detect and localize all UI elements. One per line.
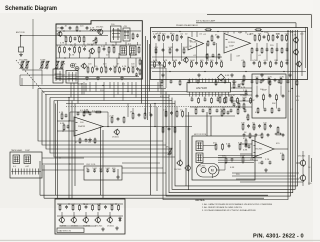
mech labels	[198, 156, 226, 168]
part amp-mid1	[155, 48, 157, 55]
label row part 6	[113, 66, 118, 68]
IF transformer T1	[111, 26, 122, 42]
IF transformer T4	[130, 46, 137, 55]
svg-text:6.8K: 6.8K	[226, 143, 231, 145]
part subamp-14	[287, 80, 290, 84]
potentiometer VR2a VR2b	[40, 60, 50, 70]
part ctl-t4	[274, 78, 277, 82]
svg-text:4.7K: 4.7K	[268, 77, 273, 79]
resistor R22	[119, 66, 121, 73]
svg-text:10K: 10K	[241, 123, 245, 125]
motor belt outline	[197, 164, 220, 178]
label bat-3	[71, 204, 76, 206]
wire amp rail bottom	[152, 71, 306, 73]
capacitor C37	[106, 169, 109, 173]
op-amp U3	[74, 117, 103, 136]
part amp-rm8	[286, 48, 289, 52]
transistor Q17	[94, 217, 100, 224]
tuner top small parts	[61, 26, 89, 33]
svg-text:6.8K: 6.8K	[276, 34, 281, 36]
part amp-rt7	[281, 34, 283, 41]
resistor R33	[207, 40, 209, 46]
part rl2-4	[261, 133, 263, 139]
wire center verticals	[165, 107, 167, 112]
wire interblock verticals	[145, 36, 147, 116]
diode D2	[119, 217, 122, 222]
svg-text:2.2K: 2.2K	[72, 46, 77, 48]
label ctl-t3	[268, 77, 273, 79]
wire right edge pair	[308, 155, 310, 185]
wire opamp inputs	[57, 120, 74, 122]
part subamp-6	[215, 80, 217, 86]
wire antenna feed	[21, 35, 56, 37]
ground amp	[161, 73, 292, 77]
resistor R13	[112, 46, 117, 54]
label bat-5	[84, 204, 89, 206]
svg-text:6.8K: 6.8K	[84, 110, 89, 112]
part icrow2-1	[195, 108, 197, 115]
capacitor C21	[213, 42, 216, 46]
svg-text:VOLUME: VOLUME	[19, 60, 28, 62]
transformer T6	[24, 155, 31, 164]
svg-text:6.8K: 6.8K	[247, 34, 252, 36]
tuner row labels	[61, 64, 135, 66]
transistor Q2	[96, 27, 104, 36]
part amp-t4	[172, 34, 174, 41]
label NOTES	[196, 198, 205, 202]
wire battery top rail	[57, 203, 123, 205]
transistor Q9	[174, 160, 182, 171]
label icrow2-1	[194, 108, 198, 110]
svg-text:6.8K: 6.8K	[230, 167, 235, 169]
transistor Q10	[184, 165, 190, 172]
svg-text:2SC945: 2SC945	[174, 169, 182, 171]
svg-text:MOTOR PCB: MOTOR PCB	[194, 134, 207, 136]
wire amp rail top	[152, 31, 306, 33]
part subamp-12	[269, 80, 271, 86]
capacitor C1	[74, 37, 77, 41]
filter box outline	[84, 166, 122, 180]
capacitor C5	[101, 46, 106, 51]
label amp block	[176, 24, 198, 27]
wire amp verticals	[155, 43, 157, 61]
part ctl-b4	[278, 108, 281, 112]
labels in connector	[13, 166, 30, 168]
capacitor C17	[136, 67, 139, 71]
part amp-t2	[163, 34, 165, 41]
IC U4	[187, 83, 231, 93]
svg-text:33K: 33K	[258, 34, 262, 36]
capacitor C38	[113, 169, 116, 173]
part amp-rm5	[271, 47, 273, 54]
transistor Q7	[295, 61, 301, 68]
wire outer top	[196, 20, 296, 28]
resistor R24	[128, 66, 130, 73]
svg-text:6.8K: 6.8K	[225, 75, 230, 77]
ctl labels	[255, 89, 276, 114]
transistor Q8	[112, 129, 120, 139]
resistor R25	[132, 66, 134, 73]
labels below U5	[250, 159, 270, 165]
label amp-rt4	[267, 34, 270, 36]
labels under IC	[233, 95, 248, 97]
resistor R10	[79, 46, 81, 53]
label amp-rb1	[252, 60, 257, 62]
resistor R79	[92, 204, 94, 211]
svg-text:2SC945: 2SC945	[95, 226, 103, 228]
capacitor C45	[243, 90, 248, 95]
label filter box	[86, 164, 96, 166]
label icrow2-7	[236, 108, 241, 110]
label batQ2	[71, 226, 79, 228]
right column labels	[241, 87, 300, 129]
part subamp-2	[170, 80, 173, 84]
part rl-1	[242, 123, 244, 130]
dashed gang wire	[16, 60, 46, 95]
svg-text:4.7K: 4.7K	[90, 28, 95, 30]
svg-text:AN7108: AN7108	[196, 86, 207, 90]
inductor L1	[90, 28, 100, 32]
part rl2-2	[249, 133, 251, 139]
svg-text:100P: 100P	[78, 84, 83, 86]
block outline: tape mechanism	[192, 136, 255, 180]
resistor R14	[138, 46, 140, 53]
resistor R51	[176, 110, 178, 117]
capacitor C52	[65, 205, 68, 209]
svg-text:2SA733: 2SA733	[83, 225, 91, 228]
part amp-l0	[154, 61, 156, 68]
svg-text:ANT ROD: ANT ROD	[16, 31, 26, 34]
svg-text:P/N. 4301- 2622 - 0: P/N. 4301- 2622 - 0	[253, 234, 304, 240]
svg-text:6.8K: 6.8K	[60, 123, 65, 125]
svg-text:1S1555: 1S1555	[228, 42, 236, 44]
capacitor C47	[261, 161, 264, 165]
svg-text:6.8K: 6.8K	[173, 60, 178, 62]
part subamp-10	[251, 80, 254, 84]
block outline: amplifier section	[151, 28, 308, 80]
resistors R80-R82	[218, 96, 233, 104]
resistor R40	[83, 110, 90, 113]
bus left drop wires	[55, 104, 57, 196]
ground U3	[88, 138, 92, 142]
capacitor C35	[93, 169, 96, 173]
svg-text:33K: 33K	[285, 60, 289, 62]
part amp-t5	[176, 34, 178, 41]
svg-text:10K: 10K	[110, 204, 114, 206]
resistor R1	[64, 35, 67, 43]
transistor Q1	[57, 28, 65, 38]
svg-text:OSC COIL: OSC COIL	[86, 164, 96, 166]
part amp-l3	[168, 61, 171, 65]
svg-text:2.2K: 2.2K	[243, 90, 248, 92]
wire ctl verticals	[256, 86, 258, 96]
label ic-1	[191, 97, 194, 99]
resistor R77	[79, 204, 81, 211]
IF transformer T2	[123, 28, 130, 41]
capacitor C31	[117, 117, 120, 121]
label amp-rt6	[276, 34, 281, 36]
label amp-m5	[210, 60, 214, 62]
resistor R71	[213, 143, 217, 151]
part amp-rb3	[264, 61, 267, 65]
part rl2-1	[243, 133, 246, 137]
part amp-l1	[158, 61, 161, 65]
capacitor C58	[104, 205, 107, 209]
svg-text:2.2K: 2.2K	[163, 60, 168, 62]
wire pair left of mechanism box	[185, 108, 187, 186]
part amp-rm4	[266, 48, 269, 52]
capacitor C41	[166, 126, 170, 131]
transistor Q11	[201, 167, 206, 172]
wire opamp output	[103, 126, 192, 128]
resistor R50	[163, 110, 167, 118]
part ic-6	[224, 97, 226, 104]
bus corner wires center	[150, 62, 160, 88]
resistor R45	[130, 112, 134, 120]
part amp-m5	[211, 61, 213, 68]
capacitor C50	[231, 158, 234, 162]
resistor R16	[92, 66, 94, 73]
part amp-m6	[215, 61, 218, 65]
bus dashed wire	[66, 106, 240, 108]
part subamp-5	[197, 80, 200, 84]
wire top feed	[207, 15, 312, 28]
label amp-t2	[162, 34, 166, 36]
part icrow2-3	[209, 108, 211, 115]
resistor R53	[162, 126, 164, 133]
wires mechanism	[203, 145, 216, 147]
svg-text:M: M	[211, 169, 214, 173]
part amp-rb7	[286, 61, 289, 65]
part icrow2-5	[223, 108, 225, 115]
parts C53 R65	[231, 102, 240, 109]
transistor Q14	[58, 217, 64, 224]
head coil T7	[196, 141, 203, 151]
transistor Q13	[299, 167, 312, 185]
part subamp-3	[179, 80, 181, 86]
capacitor C48	[269, 161, 272, 165]
part ctl-b1	[257, 107, 259, 114]
resistor R73	[225, 157, 227, 164]
part amp-m2	[195, 61, 198, 65]
svg-text:33K: 33K	[58, 204, 62, 206]
antenna ANT1	[16, 31, 26, 47]
label amp-t4	[171, 34, 175, 36]
label amp-rb3	[263, 60, 267, 62]
part amp-l5	[178, 61, 181, 65]
label ic-3	[204, 97, 207, 99]
label batQ1	[59, 225, 67, 228]
transistor Q12	[298, 156, 306, 167]
IC pin stubs	[189, 92, 191, 97]
trimmer capacitor TC2	[75, 67, 79, 71]
resistor R76	[72, 204, 74, 211]
svg-text:2SC536: 2SC536	[190, 42, 198, 44]
resistor R46	[144, 112, 146, 119]
label amp-m7	[220, 60, 223, 62]
label amp-t0	[153, 34, 158, 36]
part amp-rm3	[261, 47, 263, 54]
svg-text:TONE: TONE	[40, 60, 46, 62]
drop bundle from tuner bottom	[70, 83, 72, 98]
svg-text:33K: 33K	[272, 103, 276, 105]
label rl-5	[263, 123, 267, 125]
wires Q12 Q13	[296, 162, 300, 164]
resistor R70	[280, 153, 284, 161]
part ic-8	[237, 97, 239, 104]
svg-text:5.6K: 5.6K	[101, 46, 106, 48]
capacitor C33	[149, 112, 153, 117]
wire motor feed pair	[206, 112, 208, 136]
transistor Q16	[82, 217, 88, 224]
label icrow2-3	[208, 108, 212, 110]
svg-text:4.7K: 4.7K	[59, 112, 64, 114]
part amp-rt1	[254, 34, 256, 41]
part ctl-m1	[256, 94, 259, 98]
motor M1	[209, 166, 217, 174]
wire tuner bottom rail	[56, 76, 139, 78]
part amp-mid2-2	[212, 54, 215, 58]
transistor Q5	[292, 37, 298, 44]
part amp-rt4	[268, 34, 270, 41]
label rl-1	[241, 123, 245, 125]
switch assembly SW1	[53, 69, 63, 83]
capacitor C40	[170, 111, 173, 115]
capacitor C36	[100, 169, 103, 173]
svg-text:2SC945: 2SC945	[255, 149, 263, 151]
parts left of U3	[60, 123, 69, 131]
wire tuner rail B	[56, 44, 141, 46]
part icrow2-4	[216, 109, 219, 113]
label connector	[11, 149, 30, 152]
part ctl-m5	[282, 94, 285, 98]
op-amp U5	[252, 140, 274, 158]
svg-text:100P: 100P	[25, 150, 30, 152]
amp labels	[193, 34, 297, 58]
part amp-rm1	[251, 47, 253, 54]
potentiometer VR5	[166, 147, 172, 156]
transistor Q4	[183, 57, 189, 63]
block outline: tuner section supply loop	[56, 21, 142, 79]
part ic-7	[230, 98, 233, 102]
op-amp U1	[188, 37, 204, 50]
bus crossing verticals	[83, 82, 85, 95]
part amp-mid4	[176, 48, 179, 52]
part subamp-4	[188, 80, 191, 84]
diode bridge D1	[218, 74, 230, 81]
transformer T5	[13, 155, 20, 164]
resistor R11	[98, 46, 100, 53]
resistor R52	[180, 110, 183, 118]
label amp-rt8	[285, 34, 290, 36]
label battery holder	[57, 228, 84, 233]
wire right edge verticals	[301, 32, 303, 77]
capacitor C20	[215, 34, 219, 39]
wire battery feed horizontals	[40, 194, 268, 196]
battery verticals	[61, 212, 63, 218]
part amp-mid2-3	[218, 53, 220, 59]
part amp-rm7	[281, 47, 283, 54]
svg-text:5.6K: 5.6K	[236, 108, 241, 110]
part subamp-15	[296, 80, 298, 86]
part ctl-t2	[262, 78, 265, 82]
svg-text:6.8K: 6.8K	[238, 32, 243, 34]
capacitor C8	[96, 67, 99, 71]
svg-text:4.7K: 4.7K	[57, 46, 62, 48]
svg-text:PB AND FM AM RADIO: PB AND FM AM RADIO	[176, 24, 198, 27]
label batQ5	[107, 226, 115, 228]
svg-text:4.7K: 4.7K	[252, 60, 257, 62]
svg-text:2SC945: 2SC945	[96, 27, 104, 29]
label amp-mid1	[155, 47, 159, 49]
resistor R15	[87, 66, 89, 73]
label filter 2	[93, 168, 98, 170]
resistor R18	[101, 66, 103, 73]
wire connector to right	[42, 157, 84, 159]
label bat-9	[110, 204, 114, 206]
wire U5 io	[240, 143, 252, 145]
capacitor C34	[87, 169, 90, 173]
capacitor C32	[138, 113, 141, 117]
part ic-3	[204, 98, 207, 102]
resistor R82	[111, 204, 113, 211]
part amp-mid3	[169, 48, 171, 55]
part ic-4	[211, 97, 213, 104]
capacitor C0 and ground	[19, 47, 24, 57]
part subamp-13	[278, 80, 281, 84]
svg-text:BATTERY 3V: BATTERY 3V	[59, 230, 72, 233]
label row part 10	[131, 66, 135, 68]
part amp-m4	[205, 61, 208, 65]
svg-text:1. ALL CAPACITORS ARE IN MICRO: 1. ALL CAPACITORS ARE IN MICROFARADS UNL…	[202, 203, 273, 206]
wire battery mid rail	[57, 215, 123, 217]
ground filter	[116, 169, 120, 179]
svg-text:3. VOLTAGES MEASURED W/ VTVM N: 3. VOLTAGES MEASURED W/ VTVM NO SIGNAL A…	[202, 209, 257, 212]
svg-text:2.2K: 2.2K	[280, 77, 285, 79]
svg-text:6.8K: 6.8K	[84, 204, 89, 206]
label filter 3	[99, 168, 104, 170]
transistor Q18	[106, 217, 112, 224]
parts above U3	[77, 110, 96, 117]
switch assembly SW2	[66, 71, 78, 84]
svg-text:5.6K: 5.6K	[61, 64, 66, 66]
part icrow2-8	[244, 109, 247, 113]
svg-text:2SA733: 2SA733	[59, 225, 67, 228]
potentiometer VR3a VR3b	[55, 61, 65, 70]
parts mech right R74 C51	[238, 142, 247, 163]
part amp-t6	[180, 35, 183, 39]
part amp-rt8	[286, 34, 288, 41]
part icrow2-7	[237, 108, 239, 115]
label row part 0	[86, 66, 90, 68]
part ctl-b3	[271, 107, 273, 114]
label batQ4	[95, 226, 103, 228]
capacitor C55	[85, 205, 88, 209]
resistor R4	[83, 36, 85, 43]
svg-text:2SA733: 2SA733	[78, 125, 86, 128]
svg-text:4.7K: 4.7K	[60, 43, 65, 45]
wires mid horizontal filter links	[122, 162, 160, 164]
capacitor C3	[68, 47, 71, 51]
switch S1	[93, 39, 98, 42]
label ic-5	[217, 97, 220, 99]
capacitor C14	[123, 67, 126, 71]
svg-text:5.6K: 5.6K	[106, 168, 111, 170]
resistor R2	[70, 36, 72, 43]
wire opamp feedback	[70, 111, 108, 113]
resistor R7	[57, 46, 62, 54]
label amp-t6	[180, 34, 184, 36]
